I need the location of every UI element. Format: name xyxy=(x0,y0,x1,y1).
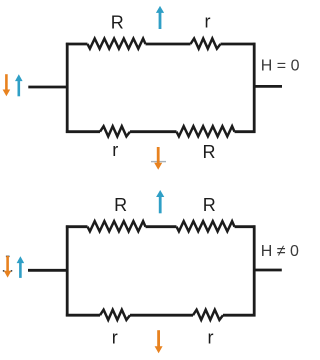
svg-text:H ≠ 0: H ≠ 0 xyxy=(261,243,299,260)
svg-text:H = 0: H = 0 xyxy=(261,57,300,74)
wire right rail (circuit 2) xyxy=(253,225,256,316)
spin-down arrow (orange, circuit 1 input left) xyxy=(3,74,11,96)
wire bottom-middle segment (circuit 1) xyxy=(130,130,177,133)
resistor R (circuit 2 top-left) xyxy=(88,221,146,231)
wire top-right segment (circuit 2) xyxy=(235,225,256,228)
spin-down arrow (orange, circuit 1 bottom layer) xyxy=(154,147,162,170)
wire bottom-middle segment (circuit 2) xyxy=(130,314,193,317)
svg-text:r: r xyxy=(112,140,118,160)
wire top-right segment (circuit 1) xyxy=(221,43,256,46)
resistor R (circuit 2 top-right) xyxy=(177,221,235,231)
faint crossing tick behind circuit 1 bottom arrow xyxy=(151,161,166,163)
dark cap atop circuit 2 left orange arrow xyxy=(6,255,10,257)
wire bottom-left segment (circuit 2) xyxy=(66,314,100,317)
wire left rail (circuit 2) xyxy=(66,225,69,316)
wire top-middle segment (circuit 1) xyxy=(146,43,191,46)
wire top-middle segment (circuit 2) xyxy=(146,225,177,228)
wire top-left segment (circuit 1) xyxy=(66,43,88,46)
spin-down arrow (orange, circuit 2 input left) xyxy=(4,256,12,278)
resistor r (circuit 2 bottom-right) xyxy=(193,310,223,320)
resistor r (circuit 1 bottom-left) xyxy=(100,126,130,136)
wire left rail (circuit 1) xyxy=(66,43,69,133)
wire right rail (circuit 1) xyxy=(253,43,256,133)
svg-text:R: R xyxy=(203,195,216,215)
svg-text:r: r xyxy=(205,11,211,31)
wire bottom-right segment (circuit 1) xyxy=(235,130,256,133)
wire right lead (circuit 1) xyxy=(254,85,282,88)
spin-down arrow (orange, circuit 2 bottom layer) xyxy=(155,330,163,353)
spin-up arrow (blue, circuit 1 input left) xyxy=(15,74,23,96)
wire top-left segment (circuit 2) xyxy=(66,225,88,228)
dark specks at circuit 2 left orange arrowhead corners xyxy=(3,270,13,272)
resistor R (circuit 1 top-left) xyxy=(88,39,146,49)
svg-text:r: r xyxy=(208,328,214,348)
svg-text:R: R xyxy=(203,142,216,162)
spin-up arrow (blue, circuit 2 top layer) xyxy=(156,190,164,213)
svg-text:R: R xyxy=(111,12,124,32)
resistor R (circuit 1 bottom-right) xyxy=(177,126,235,136)
svg-text:r: r xyxy=(112,328,118,348)
resistor r (circuit 2 bottom-left) xyxy=(100,310,130,320)
wire left lead (circuit 1) xyxy=(28,86,67,89)
wire right lead (circuit 2) xyxy=(254,269,282,272)
wire bottom-left segment (circuit 1) xyxy=(66,130,100,133)
resistor r (circuit 1 top-right) xyxy=(191,39,221,49)
wire left lead (circuit 2) xyxy=(28,269,67,272)
spin-up arrow (blue, circuit 1 top layer) xyxy=(156,6,164,29)
wire bottom-right segment (circuit 2) xyxy=(223,314,256,317)
spin-up arrow (blue, circuit 2 input left) xyxy=(17,256,25,278)
svg-text:R: R xyxy=(114,195,127,215)
